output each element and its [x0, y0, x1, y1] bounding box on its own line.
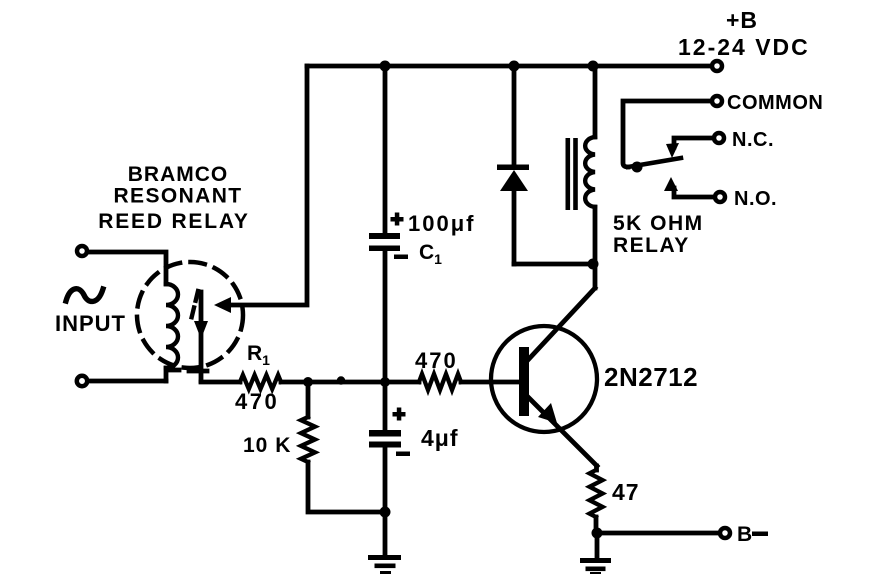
node: small dot on base rail: [337, 376, 345, 384]
svg-text:RELAY: RELAY: [613, 234, 690, 257]
dashed enclosure circle of reed relay: [137, 262, 243, 368]
wire: switch blade: [628, 158, 681, 167]
wire: base rail into transistor: [461, 380, 519, 385]
wire: COMMON lead: [623, 101, 712, 167]
relay coil 5K: [585, 137, 595, 207]
wire: emitter node to B- terminal: [597, 531, 719, 536]
resistor R1 zigzag: [240, 375, 281, 389]
svg-text:10 K: 10 K: [243, 434, 291, 457]
relay core bars: [566, 138, 578, 210]
wire: relay coil top lead: [593, 66, 598, 137]
wire: emitter node down to ground: [595, 533, 600, 558]
wire: 4uf top lead: [383, 382, 388, 430]
diode triangle: [500, 170, 528, 191]
node: base rail at 4uf: [380, 377, 390, 387]
wire: N.C. lead: [674, 138, 713, 147]
resistor 10K zigzag: [301, 417, 315, 462]
node: ground node junction: [380, 507, 391, 518]
wire: input bottom lead: [88, 379, 166, 384]
reed fixed contact tick: [189, 369, 207, 374]
svg-text:5K OHM: 5K OHM: [613, 212, 704, 235]
AC input squiggle: [66, 289, 103, 302]
ground (right): [580, 558, 611, 574]
label minus C1: [394, 255, 408, 260]
terminal: input top: [77, 246, 87, 256]
node: emitter ground junction: [592, 528, 603, 539]
transistor Q1 emitter lead: [527, 396, 597, 466]
wire: input top lead: [88, 252, 166, 284]
arrowhead: N.C. contact (points down): [666, 143, 679, 158]
svg-text:+B: +B: [726, 7, 758, 33]
transistor Q1 circle: [491, 326, 597, 432]
reed switch armature: [199, 292, 204, 381]
terminal B-: [720, 528, 730, 538]
wire: +B top rail: [307, 64, 712, 69]
svg-text:B: B: [737, 523, 752, 546]
svg-text:100μf: 100μf: [408, 211, 476, 236]
svg-text:2N2712: 2N2712: [604, 362, 698, 392]
terminal: input bottom: [77, 376, 87, 386]
svg-text:47: 47: [612, 479, 640, 505]
svg-text:R1: R1: [247, 342, 270, 368]
arrowhead: emitter (points down-right): [538, 403, 557, 423]
node: rail junction at C1: [380, 61, 391, 72]
diode top lead: [512, 66, 517, 165]
label minus 4uf: [396, 452, 410, 457]
terminal +B: [712, 61, 722, 71]
arrowhead: N.O. contact (points up): [664, 177, 678, 191]
svg-text:C1: C1: [419, 241, 442, 267]
capacitor 4uf plates: [369, 430, 401, 448]
transistor Q1 base bar: [519, 347, 529, 416]
svg-text:470: 470: [235, 389, 279, 414]
wire: C1 top lead: [383, 66, 388, 233]
node: rail junction at relay coil: [588, 61, 599, 72]
reed contact (dashed): [191, 291, 198, 320]
label plus 4uf: [393, 408, 406, 421]
terminal COMMON: [712, 96, 722, 106]
wire: 10K bottom lead and return to ground node: [308, 462, 385, 512]
arrowhead: reed armature (points down): [194, 321, 208, 339]
wire: 10K top lead: [306, 382, 311, 417]
wire: 47 bottom lead: [594, 517, 599, 533]
wire: C1 bottom lead to base rail: [383, 251, 388, 382]
resistor 470 (base) zigzag: [419, 374, 461, 390]
diode bottom lead: [512, 191, 517, 264]
wire: N.O. lead: [674, 188, 714, 197]
arrowhead: reed contact feed (points left): [214, 297, 231, 313]
svg-text:INPUT: INPUT: [55, 311, 126, 336]
svg-text:4μf: 4μf: [421, 425, 459, 451]
wire: base rail middle segment: [281, 380, 419, 385]
svg-text:REED RELAY: REED RELAY: [98, 210, 249, 233]
wire: 47 top lead: [594, 466, 599, 470]
wire: left drop from rail to reed contact: [228, 66, 307, 305]
svg-text:RESONANT: RESONANT: [113, 185, 242, 208]
wire: diode to relay coil bottom: [514, 262, 595, 267]
resistor 47 zigzag: [590, 470, 603, 517]
node: rail junction at diode: [509, 61, 520, 72]
terminal N.C.: [714, 133, 724, 143]
svg-text:470: 470: [415, 348, 458, 373]
wire: base rail left segment (reed to R1): [201, 380, 240, 385]
svg-text:N.O.: N.O.: [734, 188, 777, 210]
reed relay coil: [166, 284, 178, 368]
svg-text:N.C.: N.C.: [732, 129, 774, 151]
capacitor C1 100uf plates: [369, 233, 400, 251]
transistor Q1 collector lead: [527, 288, 595, 361]
wire: coil bottom tick: [166, 368, 179, 381]
wire: relay coil bottom lead to collector: [593, 207, 598, 288]
node: coil bottom junction: [588, 259, 599, 270]
diode cathode bar: [497, 165, 529, 171]
wire: 4uf bottom lead down to ground: [383, 448, 388, 557]
label plus C1: [391, 213, 404, 226]
svg-text:BRAMCO: BRAMCO: [128, 163, 229, 186]
ground (center): [368, 555, 401, 574]
terminal N.O.: [715, 192, 725, 202]
svg-text:COMMON: COMMON: [727, 92, 823, 114]
svg-text:12-24 VDC: 12-24 VDC: [678, 34, 810, 60]
node: switch pivot: [632, 162, 643, 173]
node: base rail at 10K: [303, 377, 313, 387]
